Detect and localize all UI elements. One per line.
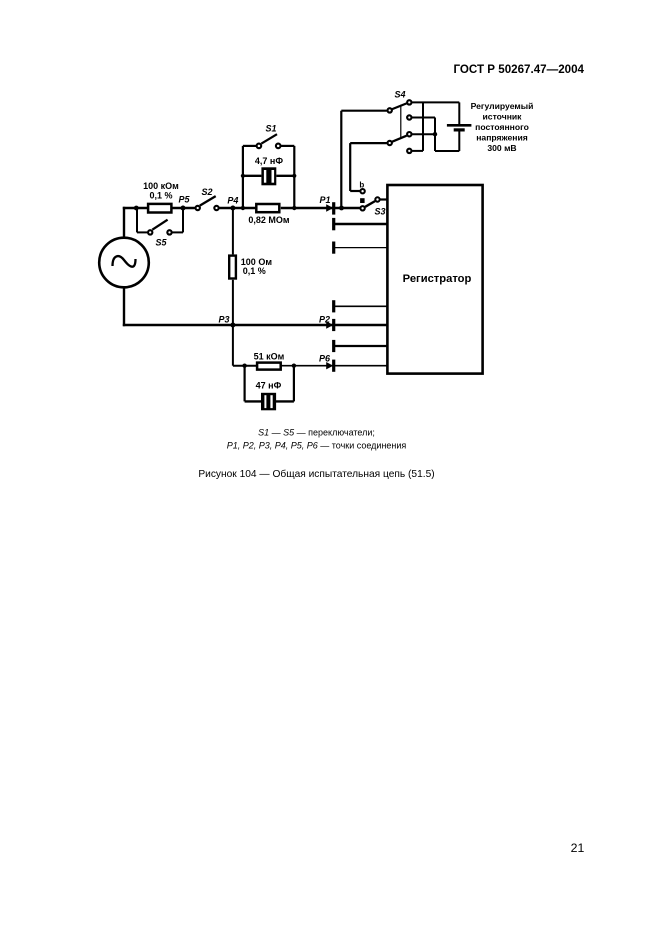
wire 51к to P6: [281, 365, 387, 367]
capacitor 47 нФ loop right vertical: [293, 366, 295, 402]
switch S2: [196, 187, 219, 210]
svg-text:P5: P5: [178, 195, 190, 205]
battery label Регулируемый источник постоянного напряжения 300 мВ: [471, 101, 534, 153]
registrator input line 6: [334, 345, 387, 347]
node P3: [230, 323, 235, 328]
wire P4 branch down (100 Ом): [232, 208, 234, 254]
node P4: [230, 206, 235, 211]
svg-text:4,7 нФ: 4,7 нФ: [255, 156, 283, 166]
node dots on main line: [241, 206, 245, 210]
switch S3 with contacts a/b: [359, 180, 385, 216]
registrator input line 2: [334, 223, 387, 225]
svg-text:постоянного: постоянного: [475, 122, 529, 132]
wire P3 branch to 51к: [233, 365, 256, 367]
wire S4 left drop horizontal: [341, 110, 387, 112]
svg-text:S1 — S5 — переключатели;: S1 — S5 — переключатели;: [258, 427, 375, 437]
registrator input line 4: [334, 305, 387, 307]
wire generator bottom: [123, 288, 125, 327]
wire S5 branch bottom left: [137, 231, 147, 233]
svg-text:21: 21: [571, 841, 585, 855]
capacitor 4,7 нФ: [243, 156, 294, 185]
registrator input line 3: [334, 247, 387, 249]
wire S5 branch right vertical: [182, 208, 184, 232]
svg-text:напряжения: напряжения: [476, 133, 528, 143]
node P6 arrow and bar: [319, 353, 334, 372]
svg-text:P4: P4: [227, 195, 238, 205]
wire S2 to 0,82М resistor: [219, 207, 255, 210]
svg-text:b: b: [359, 180, 364, 189]
resistor 100 кОм 0,1%: [143, 181, 179, 213]
wire S5 branch left vertical: [136, 208, 138, 232]
parallel block left vertical wire: [242, 146, 244, 208]
wire S4 contact1 to battery top: [412, 101, 459, 103]
svg-text:S3: S3: [374, 206, 385, 216]
parallel block right vertical wire: [293, 146, 295, 208]
wire S4 contact4: [412, 150, 423, 152]
wire S4 contact2: [412, 117, 435, 119]
svg-text:47 нФ: 47 нФ: [256, 380, 282, 390]
wire 0,82М to S3: [281, 207, 360, 210]
svg-text:51 кОм: 51 кОм: [254, 351, 285, 361]
node dots 51к block: [242, 364, 246, 368]
svg-text:0,1 %: 0,1 %: [243, 266, 266, 276]
svg-text:P1, P2, P3, P4, P5, P6 — точки: P1, P2, P3, P4, P5, P6 — точки соединени…: [227, 441, 407, 451]
wire cross strap B: [434, 118, 436, 152]
svg-text:Регистратор: Регистратор: [403, 273, 472, 285]
wire to b contact: [350, 190, 359, 192]
svg-text:P1: P1: [319, 195, 330, 205]
node P5: [181, 206, 186, 211]
capacitor 47 нФ loop left vertical: [244, 366, 246, 402]
wire P5 to S2: [172, 207, 195, 209]
wire bottom line to P2: [123, 324, 387, 327]
node junction S4 drop: [339, 206, 344, 211]
svg-text:300 мВ: 300 мВ: [487, 143, 516, 153]
svg-text:S5: S5: [155, 238, 167, 248]
wire S4 contact3: [412, 133, 436, 135]
svg-text:ГОСТ Р 50267.47—2004: ГОСТ Р 50267.47—2004: [453, 63, 584, 76]
wire main line left segment: [123, 207, 148, 209]
svg-text:Рисунок 104 — Общая испытатель: Рисунок 104 — Общая испытательная цепь (…: [198, 468, 434, 480]
node P2 arrow and bar: [319, 314, 334, 331]
svg-text:100 кОм: 100 кОм: [143, 181, 179, 191]
battery (DC source): [435, 102, 471, 151]
wire S3 to registrator: [380, 198, 387, 200]
svg-text:S4: S4: [394, 90, 405, 100]
svg-text:P3: P3: [218, 315, 229, 325]
svg-text:Регулируемый: Регулируемый: [471, 101, 534, 111]
capacitor 47 нФ: [245, 380, 294, 410]
svg-text:0,82 МОм: 0,82 МОм: [248, 215, 290, 225]
resistor 51 кОм: [254, 351, 285, 369]
wire P3 down: [232, 325, 234, 366]
switch S5: [148, 220, 172, 248]
generator G (AC source): [99, 238, 149, 288]
wire S4 second drop horizontal: [350, 142, 387, 144]
wire cross strap A: [422, 102, 424, 150]
resistor 100 Ом 0,1%: [229, 256, 272, 279]
svg-text:S2: S2: [201, 187, 212, 197]
resistor 0,82 МОм: [248, 204, 290, 225]
wire generator top to main line: [123, 207, 125, 238]
switch S4: [388, 90, 412, 154]
svg-text:0,1 %: 0,1 %: [149, 191, 172, 201]
wire S4 left drop vertical: [340, 111, 342, 208]
node junction S5 branch left: [134, 206, 139, 211]
node junction strap B: [433, 132, 437, 136]
svg-text:источник: источник: [483, 112, 523, 122]
wire 100 Ом to P3: [232, 280, 234, 326]
switch S1: [243, 124, 294, 149]
wire S5 branch bottom right: [172, 231, 183, 233]
node P1 arrow and bar: [319, 195, 333, 215]
wire S4 second drop vertical: [349, 143, 351, 191]
svg-text:S1: S1: [265, 124, 276, 134]
svg-text:P6: P6: [319, 353, 331, 363]
registrator box: [387, 185, 482, 374]
